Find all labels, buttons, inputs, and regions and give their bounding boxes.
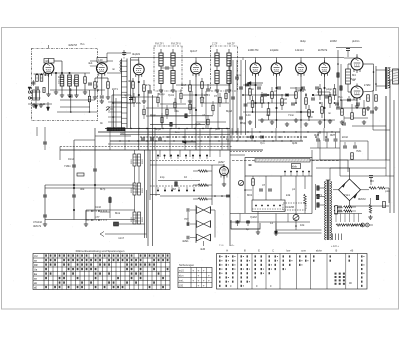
svg-text:np: np: [124, 94, 127, 97]
svg-text:+B: +B: [350, 249, 354, 253]
svg-text:aE: aE: [34, 286, 37, 289]
svg-text:Φ: Φ: [244, 249, 246, 253]
svg-text:n4: n4: [266, 113, 269, 117]
svg-text:k774: k774: [204, 93, 210, 97]
svg-text:RR: RR: [34, 264, 38, 267]
svg-text:k1p: k1p: [160, 175, 165, 179]
svg-text:MpM: MpM: [226, 109, 233, 113]
svg-text:+: +: [197, 279, 199, 283]
svg-text:71Mn: 71Mn: [64, 164, 71, 168]
svg-text:0n: 0n: [100, 121, 103, 125]
svg-text:pk01n: pk01n: [352, 39, 360, 43]
svg-text:pMk7: pMk7: [218, 160, 225, 164]
svg-text:+: +: [197, 274, 199, 278]
svg-text:+: +: [208, 274, 210, 278]
svg-text:nkM: nkM: [200, 247, 206, 251]
svg-text:n7: n7: [274, 89, 277, 93]
svg-text:Z ZF: Z ZF: [212, 42, 218, 46]
svg-text:p4pp: p4pp: [326, 87, 332, 91]
svg-text:+: +: [203, 269, 205, 273]
svg-text:k0n0: k0n0: [342, 135, 348, 139]
svg-text:Mppp: Mppp: [158, 92, 165, 96]
svg-text:k4M17M: k4M17M: [248, 48, 259, 52]
svg-text:C: C: [272, 249, 274, 253]
svg-text:ab/ar: ab/ar: [316, 249, 322, 253]
svg-text:MMp: MMp: [240, 121, 246, 125]
svg-text:4Mn7k: 4Mn7k: [33, 224, 42, 228]
svg-text:01n4: 01n4: [68, 157, 74, 161]
svg-text:nn: nn: [328, 112, 331, 115]
svg-text:707: 707: [184, 217, 189, 221]
svg-text:nn: nn: [112, 68, 115, 71]
svg-text:4744n0: 4744n0: [33, 220, 42, 224]
svg-text:+ A 0 +: + A 0 +: [331, 245, 339, 248]
svg-text:pn0: pn0: [308, 115, 313, 119]
svg-text:Sicherungen: Sicherungen: [179, 263, 195, 267]
svg-text:14: 14: [270, 221, 273, 225]
svg-text:≈ ⎓: ≈ ⎓: [219, 243, 224, 247]
svg-text:01nMM: 01nMM: [285, 205, 295, 209]
svg-text:kMk: kMk: [136, 101, 142, 105]
svg-text:k071: k071: [112, 87, 118, 91]
svg-text:7npn: 7npn: [248, 87, 254, 91]
svg-text:B: B: [336, 249, 338, 253]
svg-text:kMn: kMn: [292, 165, 298, 169]
svg-text:p0n: p0n: [215, 127, 220, 131]
svg-text:+: +: [192, 279, 194, 283]
svg-text:p4n: p4n: [352, 223, 357, 227]
svg-text:10: 10: [184, 175, 187, 179]
svg-text:+: +: [208, 279, 210, 283]
svg-text:71k1: 71k1: [344, 193, 350, 197]
svg-text:144: 144: [246, 113, 251, 117]
svg-text:7kp: 7kp: [338, 95, 343, 99]
svg-text:aU: aU: [34, 282, 37, 285]
svg-text:7ppp: 7ppp: [150, 113, 156, 117]
svg-text:M0: M0: [370, 179, 374, 183]
svg-text:7p41: 7p41: [168, 93, 174, 97]
svg-text:LS0: LS0: [179, 286, 184, 288]
svg-text:71p4: 71p4: [298, 89, 304, 93]
svg-text:H: H: [226, 249, 228, 253]
svg-text:nk4: nk4: [88, 61, 93, 65]
svg-text:p7: p7: [318, 131, 321, 135]
svg-text:knn: knn: [175, 130, 180, 134]
svg-text:meL: meL: [179, 281, 184, 283]
svg-text:7kp1: 7kp1: [350, 77, 356, 81]
svg-text:0M7: 0M7: [330, 133, 336, 137]
svg-text:4kn0: 4kn0: [128, 79, 134, 83]
svg-text:p1n: p1n: [385, 189, 390, 193]
svg-text:UU: UU: [34, 255, 38, 258]
svg-text:com: com: [301, 250, 306, 253]
svg-text:kk7M7k: kk7M7k: [318, 48, 328, 52]
svg-text:M17: M17: [181, 83, 187, 87]
svg-text:n7: n7: [202, 113, 205, 117]
svg-text:7p7k: 7p7k: [195, 122, 201, 126]
svg-text:71nn: 71nn: [288, 113, 294, 117]
svg-text:nMk1: nMk1: [182, 239, 189, 243]
svg-text:k4pk0k: k4pk0k: [270, 48, 279, 52]
svg-text:MM: MM: [44, 73, 49, 77]
svg-text:eLm: eLm: [179, 276, 184, 278]
svg-text:Mnk: Mnk: [115, 211, 121, 215]
svg-text:7pn: 7pn: [260, 141, 265, 145]
svg-text:41n0: 41n0: [95, 205, 101, 209]
svg-text:k7n: k7n: [146, 83, 151, 87]
svg-text:+: +: [203, 279, 205, 283]
svg-text:p77: p77: [95, 215, 100, 219]
svg-text:0p117: 0p117: [190, 49, 198, 53]
svg-text:7Mn: 7Mn: [356, 149, 362, 153]
svg-text:n01: n01: [45, 59, 50, 63]
svg-text:0pM: 0pM: [292, 141, 298, 145]
svg-text:n1n7: n1n7: [118, 236, 124, 240]
svg-text:1pn: 1pn: [236, 73, 241, 77]
svg-text:FM ZF II: FM ZF II: [171, 42, 181, 46]
svg-text:140: 140: [98, 58, 103, 62]
svg-text:+: +: [197, 269, 199, 273]
svg-text:0001: 0001: [59, 78, 61, 84]
svg-text:47: 47: [262, 183, 265, 187]
svg-text:4kpM1: 4kpM1: [132, 52, 141, 56]
svg-text:0np0: 0np0: [155, 127, 161, 131]
svg-text:+: +: [203, 284, 205, 288]
svg-text:7kn: 7kn: [80, 42, 85, 46]
svg-text:0001: 0001: [74, 78, 76, 84]
svg-text:low: low: [286, 249, 290, 253]
svg-text:+: +: [192, 269, 194, 273]
svg-text:kp: kp: [246, 227, 249, 231]
svg-text:nMk7M: nMk7M: [68, 43, 78, 47]
svg-text:FM ZF I: FM ZF I: [155, 42, 164, 46]
svg-text:40: 40: [260, 93, 263, 97]
svg-text:07: 07: [214, 94, 217, 98]
svg-text:1kkn: 1kkn: [58, 75, 64, 79]
svg-text:AM ZF: AM ZF: [227, 42, 235, 46]
svg-text:0MnM: 0MnM: [358, 197, 366, 201]
svg-text:k00M: k00M: [330, 39, 337, 43]
svg-text:77: 77: [240, 183, 243, 187]
svg-text:E: E: [258, 249, 260, 253]
svg-text:Mpn: Mpn: [312, 93, 318, 97]
svg-text:10k: 10k: [300, 223, 305, 227]
svg-text:14k114: 14k114: [295, 48, 304, 52]
svg-text:p0: p0: [284, 97, 287, 101]
svg-text:M4: M4: [352, 73, 356, 77]
svg-text:n4p: n4p: [120, 131, 125, 135]
svg-text:7pkM: 7pkM: [250, 215, 257, 219]
svg-text:p1: p1: [292, 187, 295, 191]
svg-text:40k: 40k: [80, 187, 85, 191]
svg-text:+: +: [197, 284, 199, 288]
svg-text:k4k: k4k: [286, 193, 291, 197]
svg-text:k7kM: k7kM: [364, 83, 371, 87]
svg-text:nn71: nn71: [316, 193, 322, 197]
svg-text:M01: M01: [247, 193, 253, 197]
svg-text:mLS: mLS: [179, 271, 184, 273]
svg-text:4k4p: 4k4p: [300, 39, 306, 43]
svg-text:M7p: M7p: [100, 187, 106, 191]
svg-text:~o~: ~o~: [230, 244, 235, 247]
svg-text:Röhrenbestückung und Spannunge: Röhrenbestückung und Spannungen: [76, 249, 125, 253]
